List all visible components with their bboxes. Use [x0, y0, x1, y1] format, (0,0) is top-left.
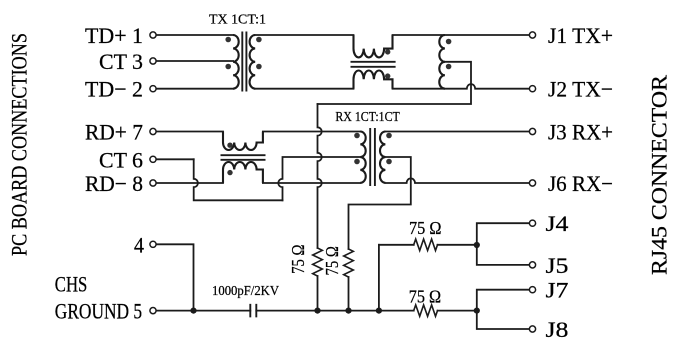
svg-text:4: 4	[134, 232, 144, 257]
svg-text:J2 TX−: J2 TX−	[548, 77, 613, 102]
svg-text:CT 3: CT 3	[99, 49, 143, 74]
svg-text:J5: J5	[546, 253, 569, 278]
svg-text:TD− 2: TD− 2	[85, 77, 143, 102]
svg-text:TX 1CT:1: TX 1CT:1	[209, 11, 266, 26]
svg-text:J6 RX−: J6 RX−	[548, 171, 613, 196]
svg-text:75 Ω: 75 Ω	[409, 218, 441, 238]
svg-text:75 Ω: 75 Ω	[409, 287, 441, 307]
svg-text:RJ45 CONNECTOR: RJ45 CONNECTOR	[647, 75, 672, 275]
svg-text:J7: J7	[546, 278, 569, 303]
svg-text:75 Ω: 75 Ω	[288, 245, 308, 274]
svg-text:CT 6: CT 6	[99, 147, 143, 172]
svg-text:PC BOARD CONNECTIONS: PC BOARD CONNECTIONS	[7, 33, 32, 256]
svg-text:J3 RX+: J3 RX+	[548, 120, 613, 145]
svg-text:GROUND 5: GROUND 5	[55, 299, 142, 324]
svg-text:RD− 8: RD− 8	[85, 171, 143, 196]
svg-text:CHS: CHS	[55, 272, 88, 297]
svg-text:J1 TX+: J1 TX+	[548, 23, 613, 48]
svg-text:J4: J4	[546, 211, 569, 236]
svg-text:J8: J8	[546, 317, 569, 342]
svg-text:75 Ω: 75 Ω	[322, 246, 342, 275]
svg-text:RX 1CT:1CT: RX 1CT:1CT	[335, 109, 400, 124]
svg-text:TD+ 1: TD+ 1	[85, 23, 143, 48]
svg-text:1000pF/2KV: 1000pF/2KV	[212, 284, 279, 299]
svg-text:RD+ 7: RD+ 7	[85, 120, 143, 145]
